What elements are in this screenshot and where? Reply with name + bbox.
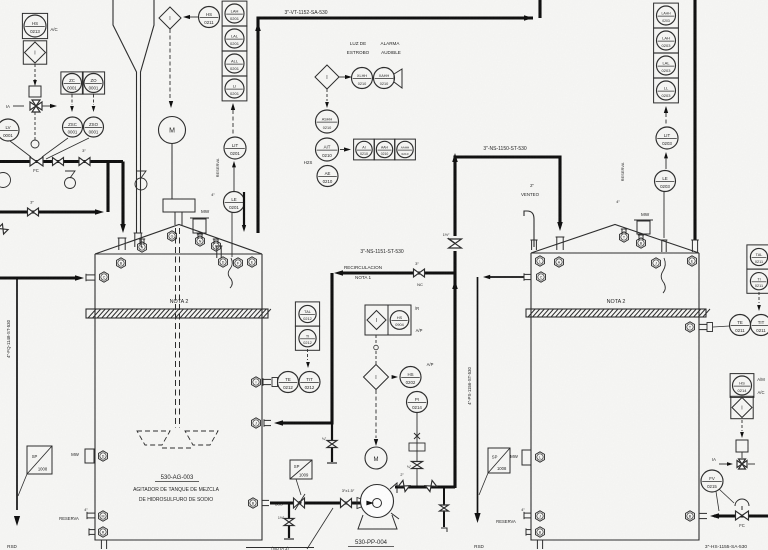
position controller ZO/0001 (boxed) xyxy=(82,72,104,94)
left tank roof nozzle stub (vapor line) xyxy=(118,238,127,250)
gate valve 3in (lower feed pipe) xyxy=(28,200,39,217)
signal diamond to pump motor xyxy=(374,390,378,446)
roof nozzle G xyxy=(168,231,177,241)
agitator shaft (dashed, inside left tank) xyxy=(176,228,180,428)
agitator motor M (top of left tank) xyxy=(159,117,186,144)
recirc drain (below corner) xyxy=(322,423,337,463)
hand switch HS/0214 (boxed) A/M A/C xyxy=(730,374,765,398)
label 3"-NS-1151-ST-530 xyxy=(360,249,404,255)
LE/0203 to roof nozzle line xyxy=(663,192,665,239)
wall nozzle F xyxy=(234,258,243,268)
truncated note text (bottom centre) xyxy=(246,546,314,550)
IA supply (right) xyxy=(712,457,755,469)
signal diamond to motor M xyxy=(169,29,173,108)
wall nozzle C (left tank) xyxy=(100,272,109,282)
pipe 3in-HS-1155-SA-530 (inlet) xyxy=(710,513,768,519)
pump discharge riser xyxy=(452,162,458,488)
pipe 4in-FQ-1148-ST-530 to RSD xyxy=(6,278,20,549)
level transmitter LIT/0201 xyxy=(224,137,246,159)
solenoid (right inlet) xyxy=(736,440,748,458)
spec break SP/1009 xyxy=(290,460,312,495)
LV valve linkage lines xyxy=(10,138,89,159)
pipe 3in-NS-1150-ST-530 xyxy=(452,153,563,231)
right tank roof inlet stub (from 3in-NS-1150) xyxy=(556,237,565,250)
signal ZO down-arrow xyxy=(92,95,96,113)
level element LE/0201 xyxy=(224,192,245,213)
wall nozzle B (right wall) xyxy=(526,527,545,537)
signal valve to positioner xyxy=(31,112,39,148)
solenoid valve body xyxy=(29,86,41,97)
reserva stub on right tank roof xyxy=(616,162,625,204)
wall nozzle R xyxy=(89,527,108,537)
wall nozzle A (right) xyxy=(555,257,564,267)
spec break SP/1008 (left) xyxy=(18,446,52,496)
note NOTA 2 (left tank) xyxy=(170,299,189,305)
label 530-PP-004 xyxy=(348,540,394,547)
pipe 4in-PS-1156-ST-530 to RSD xyxy=(467,273,531,549)
label H2S xyxy=(304,160,313,165)
element AE/0210 xyxy=(317,166,338,187)
gate valve (discharge) xyxy=(425,480,436,491)
temperature transmitter TIT/0212 xyxy=(299,372,320,393)
manway MW nozzle right wall xyxy=(510,450,531,465)
wall nozzle L (right) xyxy=(536,256,545,266)
roof nozzle B (right tank) xyxy=(637,238,646,248)
valve NC 3in (recirculation) xyxy=(414,261,425,287)
small angle valve at left edge xyxy=(0,224,8,234)
level transmitter LIT/0203 xyxy=(656,127,678,149)
vapor line with down arrow (roof right) xyxy=(242,192,246,232)
temperature element TE/0212 xyxy=(278,372,299,393)
level alarm column LAHH/LAH/LAL/LL 0203 (boxed stack) xyxy=(654,3,679,103)
check valve (discharge) xyxy=(398,473,409,492)
annotation leader (suction) xyxy=(307,508,333,549)
gate valve (upper feed pipe) xyxy=(53,158,64,166)
PI root valve assembly xyxy=(407,413,425,489)
manway MW nozzle left wall xyxy=(71,449,94,463)
globe valve 1-1/2in (riser) xyxy=(443,233,462,248)
signal down from diamond xyxy=(325,89,329,108)
signal ZC down-arrow xyxy=(70,95,74,113)
left tank internal hatched line (NOTA 2 baffle) xyxy=(86,309,271,318)
hand switch HS/0202 A/P xyxy=(392,362,434,388)
agitator gearbox xyxy=(163,144,195,226)
right tank bottom nozzle stub xyxy=(536,540,544,549)
level alarm column LAH/LAL/ALL/LI 0201 (boxed stack) xyxy=(222,1,247,101)
control valve top-left (4-way) xyxy=(30,100,50,112)
stub ticks above right eave nozzles xyxy=(621,229,644,240)
label 3x1.5 reducer xyxy=(342,488,364,509)
wall nozzle B (right tank east) xyxy=(686,511,708,521)
pump motor M xyxy=(365,447,387,469)
position switch ZSO/0001 xyxy=(84,117,104,137)
pipe into nozzle C of left tank xyxy=(0,274,95,282)
interlock diamond I (agitator) xyxy=(159,7,181,29)
right tank internal hatched line (NOTA 2 baffle) xyxy=(526,309,710,317)
roof nozzle N xyxy=(196,236,205,246)
note LUZ DE ALARMA / ESTROBO AUDIBLE xyxy=(347,41,401,55)
wall nozzle E (right) xyxy=(688,256,697,266)
stub ticks above left eave nozzles xyxy=(139,234,219,244)
drain funnel left edge xyxy=(0,173,11,188)
alarm light XLHH/0210 xyxy=(352,68,373,89)
wall nozzle C (right tank) xyxy=(537,272,546,282)
control valve FV body FC xyxy=(735,499,749,528)
butterfly valve (suction) xyxy=(294,494,306,510)
solids feed hopper (funnel) xyxy=(113,0,154,233)
label RECIRCULACION NOTA 1 xyxy=(344,265,382,280)
pipe recirculation 3in-NS-1151-ST-530 xyxy=(264,270,455,427)
suction nozzle B (left tank) xyxy=(249,498,284,508)
level valve LV/0001 bubble xyxy=(0,119,19,141)
discharge drain xyxy=(440,487,449,532)
pressure indicator PI/0214 xyxy=(407,392,428,413)
roof nozzle T (right tank) xyxy=(620,232,629,242)
valve positioner FV/0215 xyxy=(701,470,734,511)
signal HS to diamond xyxy=(183,15,199,19)
signal LE to LIT (right) xyxy=(664,152,668,169)
interlock box I + HS/0904 with /R A/P xyxy=(365,305,423,335)
label 3"-NS-1150-ST-530 xyxy=(483,146,527,152)
signal to solenoid xyxy=(33,64,37,86)
interlock diamond (below HS/0213) xyxy=(23,41,46,64)
LE to roof nozzle line xyxy=(231,213,233,258)
temperature alarm column TAL/TI 0211 (boxed) xyxy=(747,245,768,311)
interlock diamond I (H2S alarm) xyxy=(315,65,339,89)
temperature alarm column TAL/TI 0212 (boxed) xyxy=(295,302,319,368)
manway MW on left tank roof xyxy=(190,209,210,233)
pipe feed lower xyxy=(0,209,104,215)
wall nozzle I (left tank) xyxy=(252,377,278,387)
label 3"-VT-1152-SA-530 xyxy=(284,10,327,16)
wall nozzle E xyxy=(248,257,257,267)
interlock diamond I (pump) xyxy=(364,365,389,390)
signal up into column xyxy=(231,103,235,135)
reserva nozzle 4in (left wall) xyxy=(59,508,95,521)
reserva nozzle 4in (right wall) xyxy=(496,508,531,524)
position controller ZC/0001 (boxed) xyxy=(61,72,83,94)
reserva stub on left tank roof xyxy=(211,158,222,258)
hand switch HS/0211 xyxy=(199,7,220,28)
gate valve 3in (upper feed pipe) xyxy=(79,148,90,166)
agitator impeller (dashed) xyxy=(137,431,218,448)
hand switch HS/0213 (boxed) with A/C xyxy=(22,13,57,38)
manway MW on right tank roof xyxy=(634,212,653,234)
pump 530-PP-004 (centrifugal) xyxy=(358,483,399,529)
temperature element TE/0211 xyxy=(713,315,751,336)
roof nozzle A xyxy=(138,242,147,252)
wall nozzle D (left wall, manway) xyxy=(99,451,108,461)
pipe 3in-VT-1152-SA-530 (vent header) xyxy=(255,0,540,233)
wall nozzle J (right) xyxy=(652,258,661,268)
valve LV body FC (on upper feed pipe) xyxy=(30,157,43,173)
switch ASHH/0210 xyxy=(316,110,339,133)
wall nozzle J (left tank recirc return) xyxy=(252,418,261,428)
temperature transmitter TIT/0211 xyxy=(751,315,768,336)
interlock diamond (right, boxed) xyxy=(731,396,753,418)
signal LE to LIT xyxy=(232,161,236,191)
thick vapor riser (right tank to top) xyxy=(691,0,699,252)
tank 530-TK-003B shell (right tank) xyxy=(531,225,699,541)
alarm row AI/AAH/AAHH 0210 (boxed) xyxy=(354,139,416,160)
wall nozzle B (left) xyxy=(117,258,126,268)
wall nozzle M xyxy=(99,511,108,521)
suction drain xyxy=(278,503,294,539)
position switch ZSC/0001 xyxy=(63,117,83,137)
right tank level stilling well (squiggle) xyxy=(661,240,668,293)
wall nozzle L (right wall manway) xyxy=(536,452,545,462)
wall nozzle T (right tank) xyxy=(686,322,713,332)
left tank roof nozzle stub (chute) xyxy=(134,233,143,247)
wall nozzle J (right wall) xyxy=(536,511,545,521)
note NOTA 2 (right tank) xyxy=(607,299,626,305)
wall nozzle D xyxy=(219,257,228,267)
pump discharge pipe xyxy=(395,485,455,488)
gate valve (suction 2) xyxy=(341,499,352,508)
left tank bottom nozzle stub xyxy=(100,540,108,549)
label 3"-HS-1155-SA-530 xyxy=(705,544,747,550)
left tank level stilling well (squiggle) xyxy=(228,258,232,288)
label 530-AG-003 xyxy=(133,475,220,503)
vent gooseneck 2in VENTEO (right tank) xyxy=(521,183,540,250)
signal diamond to alarm lights xyxy=(339,75,352,79)
signal box to diamond xyxy=(374,335,379,364)
signal AIT to alarm row xyxy=(340,147,351,151)
tank 530-TK-003A shell (left tank) xyxy=(95,225,262,541)
instrument air supply IA arrow xyxy=(6,104,57,109)
drain funnel mid xyxy=(135,171,147,190)
transmitter AIT/0210 xyxy=(316,138,339,161)
drain funnel (under upper pipe) xyxy=(65,171,76,189)
pipe feed upper (to left tank roof) xyxy=(0,162,126,234)
level element LE/0203 xyxy=(655,171,676,192)
roof nozzle L xyxy=(212,241,221,251)
signal up into right column xyxy=(664,106,668,126)
signal diamond to solenoid (right) xyxy=(740,420,744,438)
spec break SP/1008 (right) xyxy=(479,448,510,495)
alarm horn XAHH/0210 xyxy=(374,68,403,89)
pump suction pipe xyxy=(270,501,362,504)
